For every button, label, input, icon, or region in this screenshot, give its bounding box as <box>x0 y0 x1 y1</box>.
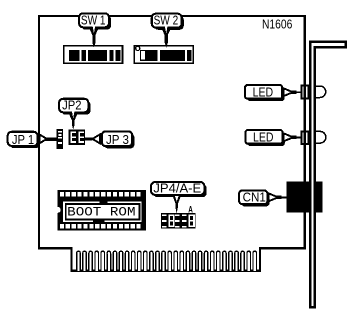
DIP switch SW2 <box>134 46 193 63</box>
svg-text:JP 3: JP 3 <box>106 132 129 147</box>
pin-1 dot of SW2 <box>136 46 140 50</box>
LED 2 lens <box>316 131 326 143</box>
BOOT ROM label area <box>63 201 142 222</box>
DIP switch SW1 <box>64 46 123 63</box>
label JP3 <box>85 131 134 148</box>
PCB outline <box>39 16 305 271</box>
svg-text:LED: LED <box>253 130 274 145</box>
connector CN1 <box>287 182 323 213</box>
label LED2 <box>245 130 300 146</box>
svg-text:SW 2: SW 2 <box>154 13 179 28</box>
svg-text:A: A <box>188 205 193 216</box>
label CN1 <box>239 190 287 207</box>
margin band breaks <box>99 201 107 204</box>
svg-text:CN1: CN1 <box>243 190 266 205</box>
svg-text:SW 1: SW 1 <box>81 12 106 27</box>
chip notch <box>55 207 61 213</box>
label LED1 <box>245 85 300 101</box>
svg-text:JP 1: JP 1 <box>12 132 34 147</box>
jumper JP1 header <box>57 129 64 149</box>
jumper block JP2/JP3 <box>69 129 86 145</box>
BOOT ROM pins <box>60 192 141 228</box>
label JP2 <box>59 98 91 130</box>
LED 2 body <box>301 131 308 144</box>
svg-text:BOOT ROM: BOOT ROM <box>67 206 135 220</box>
jumper block JP4/A-E <box>161 213 195 229</box>
label SW1 <box>79 12 111 47</box>
label SW2 <box>152 13 184 48</box>
JP4 pin marks <box>162 214 186 227</box>
mounting bracket <box>310 42 346 308</box>
LED 1 lens <box>316 86 326 98</box>
svg-text:JP2: JP2 <box>62 98 81 113</box>
LED 1 body <box>301 85 308 98</box>
svg-text:LED: LED <box>253 85 274 100</box>
BOOT ROM chip <box>58 190 146 231</box>
card edge connector fingers <box>77 251 257 271</box>
label JP4/A-E <box>151 181 207 214</box>
label JP1 <box>8 132 57 148</box>
svg-text:N1606: N1606 <box>262 16 292 31</box>
svg-text:JP4/A-E: JP4/A-E <box>153 181 201 196</box>
